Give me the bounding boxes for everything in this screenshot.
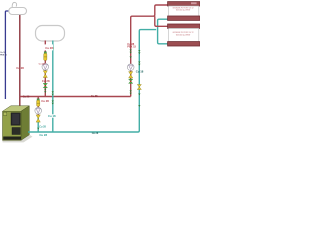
svg-text:Cu 28: Cu 28 (92, 132, 99, 135)
svg-text:Cu 28: Cu 28 (16, 66, 24, 70)
svg-text:Cu 28: Cu 28 (45, 46, 53, 50)
svg-text:Cu 28: Cu 28 (39, 133, 47, 137)
svg-text:Cu 18: Cu 18 (48, 114, 56, 118)
svg-text:Cu 18: Cu 18 (136, 70, 144, 74)
svg-text:Cu 28: Cu 28 (41, 99, 49, 103)
svg-text:Cu 28: Cu 28 (39, 63, 46, 65)
svg-text:600/1200 Q=1890W: 600/1200 Q=1890W (176, 34, 191, 36)
svg-text:Cu 28: Cu 28 (39, 126, 46, 129)
svg-text:Cu 28: Cu 28 (42, 79, 50, 83)
svg-text:Cu 28: Cu 28 (23, 95, 30, 98)
svg-text:PEX 15: PEX 15 (0, 54, 6, 56)
svg-text:GRZEJNIK PŁYTOWY CV 22: GRZEJNIK PŁYTOWY CV 22 (173, 7, 194, 9)
svg-text:GRZEJNIK PŁYTOWY CV 22: GRZEJNIK PŁYTOWY CV 22 (173, 32, 194, 34)
svg-text:Cu 28: Cu 28 (91, 95, 98, 98)
svg-text:600/1200 Q=1890W: 600/1200 Q=1890W (176, 9, 191, 11)
svg-text:PEX 15: PEX 15 (127, 45, 136, 49)
